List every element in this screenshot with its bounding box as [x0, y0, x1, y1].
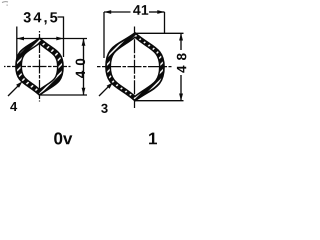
- bottom extension line (40): [40, 94, 87, 96]
- arrowhead 48 top: [179, 33, 183, 40]
- dimension line 48 (vertical): [180, 33, 182, 100]
- dimension line 41 right segment: [149, 11, 165, 13]
- dimension text 34,5: [24, 12, 58, 24]
- wall thickness text 3: [101, 104, 107, 113]
- arrowhead 34,5 left: [17, 37, 24, 41]
- extension line 41 left: [103, 12, 105, 58]
- wall thickness leader 3: [99, 86, 109, 96]
- wall thickness text 4: [10, 102, 17, 111]
- dimension text 40 (rotated): [76, 59, 86, 78]
- dimension text 48 (rotated, on white gap): [176, 50, 186, 75]
- tube wall ring left figure (hatched): [16, 38, 63, 95]
- centerline horizontal right figure: [97, 66, 172, 68]
- arrowhead leader 3: [107, 82, 113, 88]
- arrowhead 40 top: [82, 39, 86, 46]
- centerline vertical left figure: [39, 31, 41, 102]
- faint scan artifact top-left corner: [2, 1, 8, 4]
- wall thickness leader 4: [8, 86, 18, 96]
- dimension text 41: [133, 5, 148, 15]
- dimension line 41 left segment: [104, 11, 131, 13]
- tube wall ring right figure (hatched): [106, 33, 164, 101]
- top extension line (48): [135, 32, 184, 34]
- inner contour right figure: [110, 37, 159, 96]
- profile label 0v: [54, 132, 72, 144]
- centerline horizontal left figure: [4, 66, 71, 68]
- centerline vertical right figure: [134, 27, 136, 109]
- outer contour right figure: [106, 33, 164, 101]
- dimension line 40 (vertical): [83, 39, 85, 96]
- extension line left (34,5): [16, 27, 18, 63]
- profile label 1: [149, 133, 157, 145]
- bottom extension line (48): [135, 100, 184, 102]
- arrowhead 48 bottom: [179, 94, 183, 101]
- arrowhead 41 left: [104, 10, 111, 14]
- extension line 41 right: [164, 12, 166, 34]
- outer contour left figure: [16, 38, 63, 95]
- dimension line 34,5 with 40-dim top extension: [17, 38, 88, 40]
- extension/leader line right (34,5): [58, 17, 64, 57]
- arrowhead leader 4: [16, 81, 22, 87]
- arrowhead 34,5 right: [56, 37, 63, 41]
- inner contour left figure: [21, 43, 57, 89]
- arrowhead 40 bottom: [82, 88, 86, 95]
- arrowhead 41 right: [157, 10, 164, 14]
